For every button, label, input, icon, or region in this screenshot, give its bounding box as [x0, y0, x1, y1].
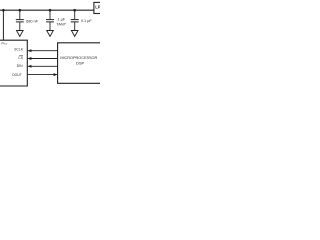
- svg-text:DOUT: DOUT: [12, 73, 22, 77]
- svg-text:CS: CS: [18, 56, 23, 60]
- ground arrow below C1: [17, 31, 24, 37]
- svg-text:MICROPROCESSOR: MICROPROCESSOR: [60, 56, 97, 60]
- regulator U2 LP (cut off at right edge): [94, 2, 102, 13]
- capacitor C3 0.1uF: [71, 10, 79, 30]
- svg-text:LP: LP: [95, 5, 100, 10]
- wire CS: [27, 58, 57, 60]
- node: junction at C2: [49, 9, 52, 12]
- microprocessor U3 box (cut off at right edge): [58, 43, 101, 84]
- svg-text:TANT: TANT: [56, 23, 66, 27]
- svg-text:0.1 µF: 0.1 µF: [81, 19, 93, 23]
- wire DIN: [27, 65, 57, 67]
- svg-text:680 nF: 680 nF: [26, 19, 39, 23]
- wire SCLK: [27, 50, 57, 52]
- arrowhead SCLK into device: [28, 49, 32, 52]
- arrowhead DIN into device: [28, 65, 32, 68]
- svg-text:SCLK: SCLK: [14, 48, 24, 52]
- svg-text:+VDD: +VDD: [1, 41, 8, 46]
- capacitor C1 680nF: [16, 10, 24, 30]
- node: junction at C1: [19, 9, 22, 12]
- svg-text:DIN: DIN: [17, 64, 23, 68]
- arrowhead DOUT into microprocessor: [54, 73, 58, 76]
- device U1 box (ADC, cut off at left edge): [0, 40, 27, 86]
- capacitor C2 1uF TANT: [46, 10, 54, 30]
- wire DOUT: [27, 74, 57, 76]
- ground arrow below C3: [71, 31, 78, 37]
- svg-text:1 µF: 1 µF: [58, 18, 66, 22]
- svg-text:DSP: DSP: [76, 60, 85, 65]
- ground arrow below C2: [47, 31, 54, 37]
- node: junction at C3: [73, 9, 76, 12]
- wire: drop from rail to device VDD pin: [2, 10, 4, 40]
- wire: VDD supply rail: [0, 9, 94, 11]
- arrowhead CS into device: [28, 57, 32, 60]
- node: rail junction to device VDD: [2, 9, 5, 12]
- overline for CS: [19, 55, 23, 57]
